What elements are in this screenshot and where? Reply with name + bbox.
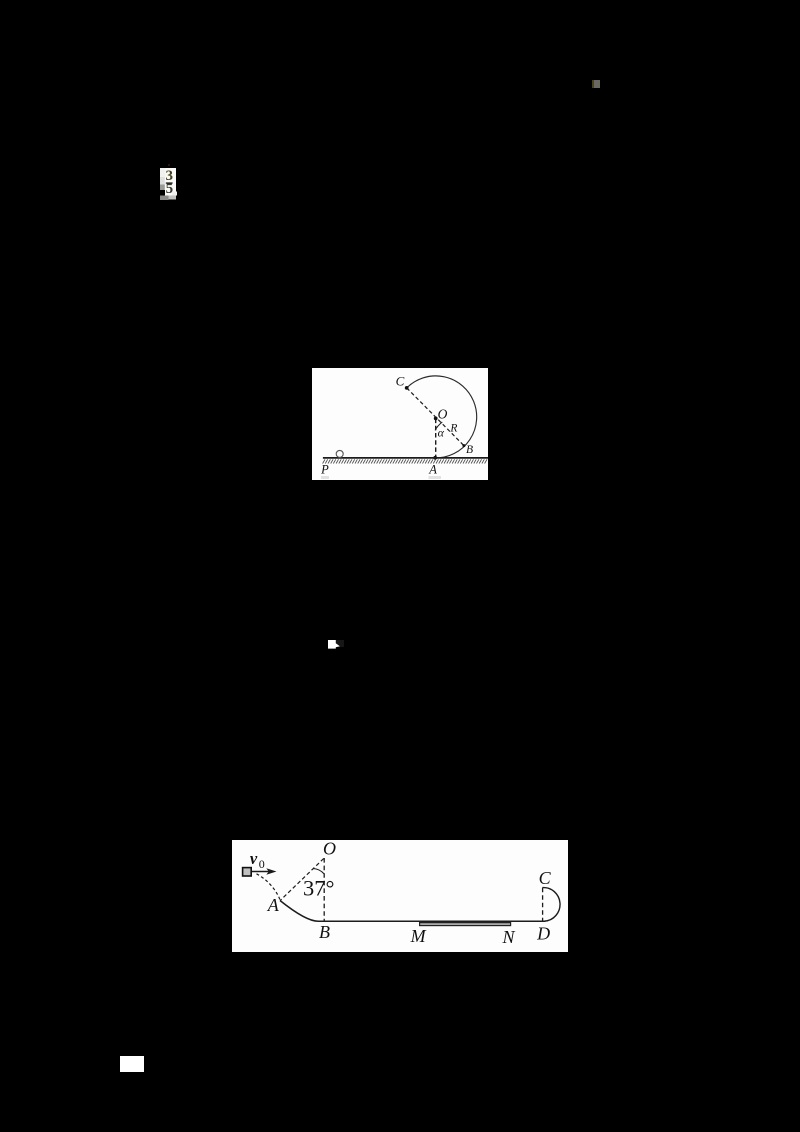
dashed C-D <box>542 888 544 921</box>
fraction 3/5 fragment <box>160 168 178 201</box>
svg-text:37°: 37° <box>303 876 335 901</box>
svg-text:v: v <box>250 849 258 868</box>
figure 2: block v0, slope O-37deg-A-B, plank M-N, loop C-D <box>232 840 568 952</box>
maroon dot above fraction <box>168 164 170 167</box>
inclined dashed O-A <box>280 859 324 901</box>
dashed trajectory to A <box>257 874 281 900</box>
37 angle arc <box>313 869 324 875</box>
small white blob fragment mid page <box>326 638 346 650</box>
dots <box>433 416 437 420</box>
svg-text:O: O <box>437 406 447 421</box>
faint gray marks under P and A <box>321 476 329 479</box>
labels <box>267 838 552 947</box>
svg-text:0: 0 <box>259 857 265 871</box>
svg-text:M: M <box>410 926 427 946</box>
dashed radius O-A <box>434 418 436 457</box>
circle arc C->top->B->A <box>406 375 476 457</box>
vertical dashed O-B <box>323 858 325 921</box>
svg-text:N: N <box>501 927 515 947</box>
ball on ground <box>336 450 343 457</box>
svg-text:P: P <box>320 462 329 476</box>
v0 arrow <box>252 871 269 873</box>
plank M-N <box>420 923 511 926</box>
svg-text:α: α <box>437 425 444 439</box>
alpha angle arc <box>435 422 442 430</box>
svg-text:C: C <box>395 373 404 388</box>
semicircle loop at D <box>542 888 560 922</box>
white rectangle fragment bottom left <box>120 1056 144 1073</box>
svg-text:R: R <box>449 422 457 434</box>
tiny gray square fragment top right <box>592 80 600 89</box>
svg-text:O: O <box>323 840 336 858</box>
svg-text:B: B <box>319 922 330 942</box>
ground line <box>322 456 488 458</box>
solid curve A to B and track to D <box>280 901 546 922</box>
svg-text:B: B <box>466 442 473 455</box>
svg-text:A: A <box>267 895 280 915</box>
gray block <box>243 868 252 876</box>
svg-text:5: 5 <box>166 181 174 197</box>
labels <box>320 373 473 476</box>
hatching <box>322 459 486 463</box>
svg-text:A: A <box>428 462 437 476</box>
svg-text:D: D <box>536 924 550 944</box>
svg-text:C: C <box>539 868 552 888</box>
figure 1: ball, ground, circle O with points C,B,A <box>312 368 489 481</box>
dashed diameter C-O-B <box>406 387 463 445</box>
